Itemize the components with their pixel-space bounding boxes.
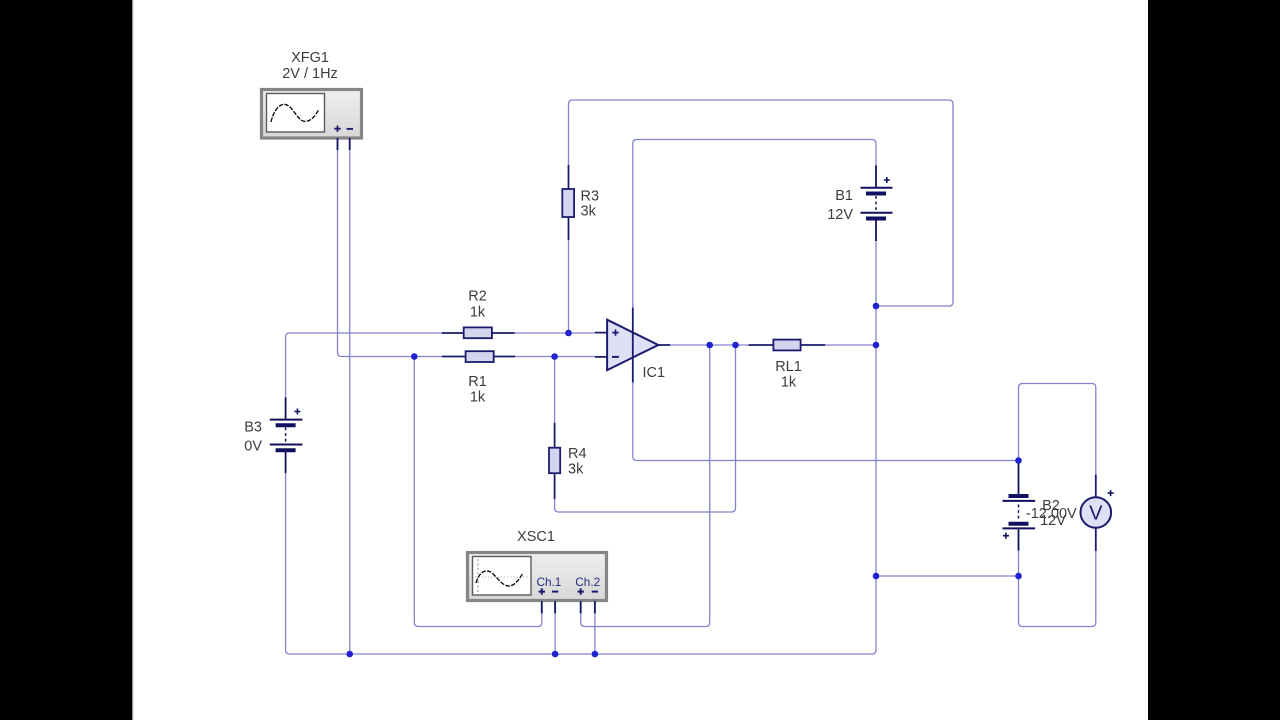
junction node Ch.2 minus / ground bus xyxy=(592,651,599,658)
wire: XFG1 minus terminal straight down to ground bus xyxy=(349,150,351,654)
svg-text:Ch.1: Ch.1 xyxy=(536,575,561,589)
resistor R1 xyxy=(442,351,515,362)
svg-text:XFG1: XFG1 xyxy=(291,50,329,66)
svg-text:R4: R4 xyxy=(568,446,587,462)
junction node bus / y576 run xyxy=(873,573,880,580)
voltmeter U1 xyxy=(1081,475,1114,551)
wire: R4 bottom around to op-amp output node (y=512 run) xyxy=(555,345,736,512)
junction node B1 minus / feedback loop xyxy=(873,303,880,310)
battery B1 xyxy=(861,166,893,242)
wire: x=876 node right to B2 bottom node (y=576 run) xyxy=(876,575,1019,577)
XSC1 Ch.1 plus mark xyxy=(539,588,545,594)
battery B2 (inverted, plus at bottom) xyxy=(1003,461,1036,551)
wire: op-amp V+ pin up and over to B1 + terminal xyxy=(633,140,876,308)
svg-text:B1: B1 xyxy=(835,188,853,204)
wire: R3 bottom down to R2/op-amp node xyxy=(568,240,570,333)
svg-text:R1: R1 xyxy=(468,374,487,390)
XSC1 pin Ch.1 plus xyxy=(541,601,543,613)
resistor RL1 xyxy=(749,340,826,351)
svg-text:B3: B3 xyxy=(244,420,262,436)
svg-text:1k: 1k xyxy=(781,375,797,391)
svg-text:Ch.2: Ch.2 xyxy=(575,575,600,589)
XSC1 pin Ch.2 plus xyxy=(580,601,582,613)
junction node B2 top xyxy=(1015,457,1022,464)
wire: XFG1 plus terminal down and right to R1 left (R1 row y=356.5) xyxy=(338,150,442,357)
wire: op-amp V- pin down and right to B2 top node (y=460.5 run) xyxy=(633,382,1019,460)
junction node RL1 right / bus xyxy=(873,342,880,349)
IC1 plus input mark xyxy=(612,329,618,335)
wire: B2 bottom lead to node xyxy=(1018,551,1020,577)
XFG1 plus terminal mark xyxy=(334,126,340,132)
svg-text:3k: 3k xyxy=(568,462,584,478)
junction node XFG minus / ground bus xyxy=(346,651,353,658)
svg-text:R3: R3 xyxy=(581,189,600,205)
junction node output / R4 loop xyxy=(732,342,739,349)
wire: output node down and left to scope Ch.2 plus xyxy=(581,345,710,627)
svg-text:IC1: IC1 xyxy=(643,365,666,381)
svg-text:1k: 1k xyxy=(470,390,486,406)
svg-text:3k: 3k xyxy=(581,204,597,220)
XSC1 sine trace xyxy=(476,571,523,586)
XFG1 sine icon xyxy=(271,104,319,122)
wire: R1-right node down to R4 top xyxy=(554,357,556,423)
right letterbox bar xyxy=(1148,0,1280,720)
resistor R3 xyxy=(562,165,574,240)
XFG1 minus pin xyxy=(349,138,351,150)
wire: R2 right to op-amp plus input xyxy=(515,332,595,334)
XFG1 plus pin xyxy=(337,138,339,150)
XSC1 pin Ch.1 minus xyxy=(554,601,556,613)
svg-text:XSC1: XSC1 xyxy=(517,529,555,545)
wire: scope Ch.2 minus down to ground bus xyxy=(594,613,596,654)
wire: right vertical bus x=876 from B1 node down to ground bus corner xyxy=(872,306,876,654)
junction node Ch.1 minus / ground bus xyxy=(552,651,559,658)
wire: ground bus along y=654 and up to B3 bottom xyxy=(286,473,872,654)
wire: B2 top node up and over to voltmeter top xyxy=(1019,384,1096,475)
wire: R3 top to node at B1 minus (outer feedback loop) xyxy=(569,100,954,306)
wire: R1 right to op-amp minus input xyxy=(515,356,595,358)
resistor R4 xyxy=(549,423,560,499)
B1 plus mark xyxy=(884,177,890,183)
op-amp IC1 xyxy=(595,308,670,383)
junction node output / Ch.2 xyxy=(706,342,713,349)
junction node B2 bottom xyxy=(1015,573,1022,580)
junction node R2/R3/op-amp plus xyxy=(565,330,572,337)
wire: R1-left node down and right to scope Ch.1 plus xyxy=(414,357,542,627)
XSC1 screen axes xyxy=(477,559,479,593)
wire: RL1 right to x=876 bus node xyxy=(825,344,876,346)
svg-text:RL1: RL1 xyxy=(775,359,802,375)
XSC1 Ch.2 plus mark xyxy=(578,588,584,594)
XSC1 Ch.1 minus mark xyxy=(552,591,558,593)
B2 plus mark xyxy=(1003,533,1009,539)
wire: op-amp output to RL1 left xyxy=(670,344,749,346)
resistor R2 xyxy=(442,327,515,338)
svg-text:0V: 0V xyxy=(244,439,262,455)
svg-text:12V: 12V xyxy=(1040,513,1066,529)
wire: B2 bottom node down and over to voltmeter bottom xyxy=(1019,551,1096,627)
wire: B3 plus terminal up and right to R2 left (R2 row y=333) xyxy=(286,333,442,397)
IC1 minus input mark xyxy=(612,356,619,358)
XFG1 minus terminal mark xyxy=(347,128,354,130)
battery B3 xyxy=(270,397,303,473)
junction node R1 right / R4 / op-amp minus xyxy=(551,353,558,360)
svg-text:12V: 12V xyxy=(827,207,853,223)
oscilloscope XSC1 xyxy=(468,553,607,614)
svg-text:R2: R2 xyxy=(468,289,487,305)
XSC1 Ch.2 minus mark xyxy=(592,591,598,593)
wire: B1 minus lead down to node xyxy=(875,241,877,306)
left letterbox bar xyxy=(0,0,132,720)
function generator XFG1 xyxy=(262,90,362,151)
junction node R1 left / XFG plus / Ch.1 xyxy=(411,353,418,360)
svg-text:V: V xyxy=(1089,503,1103,525)
svg-text:1k: 1k xyxy=(470,305,486,321)
XSC1 pin Ch.2 minus xyxy=(594,601,596,613)
wire: scope Ch.1 minus down to ground bus xyxy=(554,613,556,654)
B3 plus mark xyxy=(294,409,300,415)
svg-text:2V / 1Hz: 2V / 1Hz xyxy=(282,66,338,82)
voltmeter plus mark xyxy=(1108,490,1114,496)
